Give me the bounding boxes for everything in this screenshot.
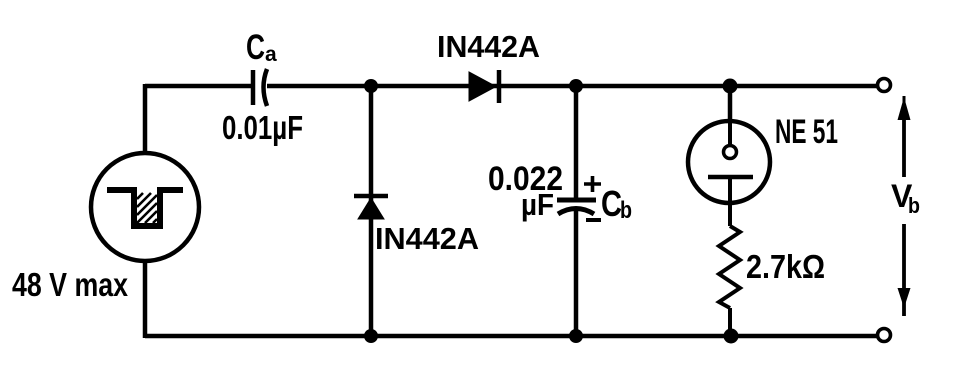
wire resistor to bottom rail	[728, 308, 732, 338]
svg-text:NE 51: NE 51	[775, 113, 838, 151]
capacitor Cb bottom curved plate	[558, 209, 594, 215]
svg-text:µF: µF	[521, 187, 554, 222]
capacitor Ca right curved plate	[264, 69, 268, 106]
polarity plus sign	[584, 176, 601, 192]
polarity minus sign	[586, 218, 601, 222]
node junction resistor bottom	[724, 329, 739, 344]
source pulse waveform symbol	[107, 190, 183, 226]
wire bottom rail	[145, 334, 878, 339]
wire top rail left segment	[145, 84, 251, 89]
capacitor Cb top plate	[557, 198, 596, 203]
svg-text:C: C	[246, 28, 265, 67]
diode D1 shunt 1N442A triangle	[358, 198, 384, 219]
source V1 pulse generator circle	[91, 153, 199, 261]
neon lamp NE51 envelope	[688, 121, 770, 203]
terminal output top	[878, 79, 891, 92]
svg-text:C: C	[601, 183, 622, 224]
neon lamp top electrode stem	[728, 121, 732, 146]
wire Cb branch upper	[574, 86, 579, 200]
neon lamp top electrode dot	[724, 146, 737, 159]
svg-text:b: b	[620, 197, 632, 224]
wire top rail right segment	[267, 84, 878, 89]
arrow Vb up	[898, 96, 911, 177]
capacitor Ca left plate	[251, 70, 256, 105]
diode D2 series 1N442A cathode bar	[497, 70, 502, 103]
wire shunt diode branch	[369, 86, 374, 336]
svg-text:a: a	[265, 43, 277, 66]
arrow Vb down	[898, 224, 911, 316]
wire Cb branch lower	[574, 208, 579, 338]
neon lamp bottom electrode stem	[728, 177, 732, 203]
wire left vertical upper	[143, 84, 148, 155]
wire left vertical lower	[143, 259, 148, 338]
wire lamp to resistor	[728, 203, 732, 226]
svg-text:0.01µF: 0.01µF	[222, 109, 303, 146]
neon lamp bottom electrode bar	[708, 175, 753, 180]
diode D1 shunt 1N442A cathode bar	[354, 194, 388, 199]
node junction bottom of shunt diode	[364, 329, 378, 343]
svg-text:IN442A: IN442A	[437, 29, 540, 64]
svg-text:IN442A: IN442A	[375, 221, 479, 256]
svg-text:48 V max: 48 V max	[12, 266, 129, 303]
diode D2 series 1N442A triangle	[469, 72, 496, 101]
resistor R1 2.7k zigzag	[719, 226, 740, 308]
node junction top of shunt diode	[364, 79, 378, 93]
node junction top of lamp branch	[723, 79, 738, 94]
wire lamp branch upper	[728, 86, 733, 123]
svg-text:b: b	[908, 193, 920, 218]
terminal output bottom	[878, 329, 891, 342]
svg-text:2.7kΩ: 2.7kΩ	[746, 248, 825, 285]
node junction bottom of Cb	[569, 329, 583, 343]
node junction top of Cb	[569, 79, 583, 93]
